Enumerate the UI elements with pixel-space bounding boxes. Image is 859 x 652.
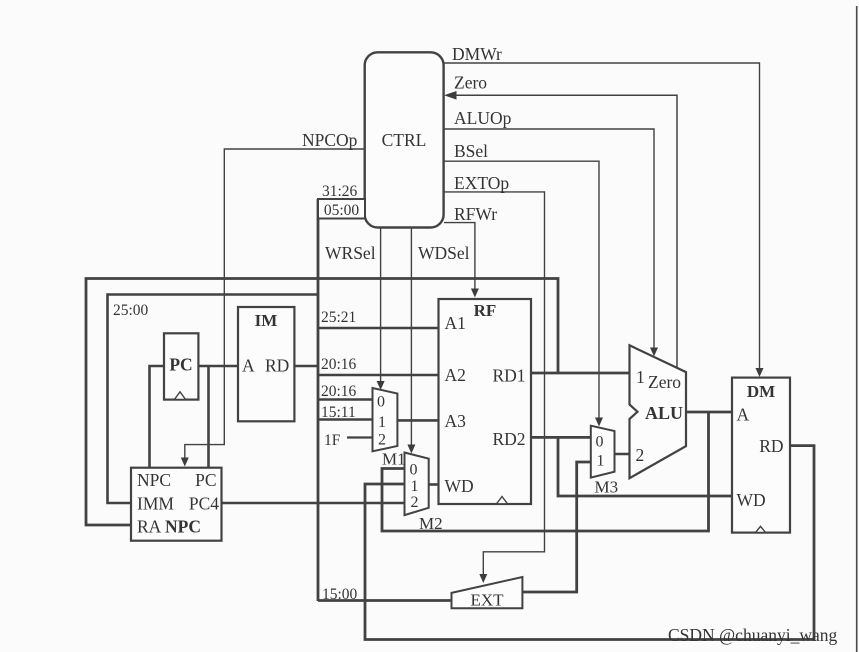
svg-text:Zero: Zero	[454, 73, 487, 93]
svg-text:M3: M3	[595, 478, 619, 497]
svg-text:15:11: 15:11	[321, 404, 356, 421]
svg-text:0: 0	[377, 394, 385, 411]
wire WDSel signal	[410, 228, 412, 447]
svg-text:RD: RD	[265, 356, 289, 376]
svg-text:DMWr: DMWr	[452, 44, 502, 64]
svg-text:RFWr: RFWr	[454, 204, 497, 224]
wire 15:11 tap to M1 input 1	[318, 418, 373, 421]
svg-text:A3: A3	[445, 411, 467, 431]
wire 15:00 tap to EXT input	[318, 599, 452, 602]
wire DMWr signal	[444, 63, 760, 370]
wire NPC output to PC input	[150, 366, 165, 468]
svg-text:A: A	[242, 356, 255, 376]
block IM	[238, 307, 294, 421]
svg-text:Zero: Zero	[648, 372, 681, 392]
svg-text:WDSel: WDSel	[418, 243, 470, 263]
wire 20:16 tap to M1 input 0	[318, 398, 373, 401]
wire WRSel signal	[380, 228, 382, 384]
extender EXT	[452, 577, 523, 610]
wire ALU output to DM A	[686, 411, 732, 414]
svg-text:A1: A1	[445, 313, 466, 333]
svg-text:BSel: BSel	[454, 141, 488, 161]
svg-text:WD: WD	[445, 476, 474, 496]
arrowhead Zero into CTRL	[444, 91, 457, 100]
svg-text:PC: PC	[195, 470, 216, 490]
wire EXTOp signal	[444, 192, 545, 575]
svg-text:RD2: RD2	[492, 429, 525, 449]
arrowhead WRSel into M1	[377, 381, 385, 390]
svg-text:CTRL: CTRL	[382, 130, 427, 150]
wire IM RD to instruction bus	[294, 365, 318, 368]
block PC	[164, 333, 198, 399]
svg-text:EXT: EXT	[470, 591, 504, 610]
svg-text:IM: IM	[255, 311, 278, 330]
wire M1 output to RF A3	[397, 419, 439, 422]
svg-text:ALU: ALU	[645, 403, 683, 423]
svg-text:2: 2	[378, 432, 386, 449]
arrowhead WDSel into M2	[407, 445, 415, 454]
wire RD2 branch to DM WD	[558, 437, 732, 496]
wire NPCOp signal	[185, 149, 365, 459]
wire RFWr signal	[444, 223, 475, 290]
arrowhead ALUOp into ALU	[650, 348, 658, 357]
wire RD1 feedback loop to NPC RA	[86, 279, 558, 526]
wire instruction 25:00 to NPC IMM	[108, 295, 319, 504]
wire RF RD1 to ALU input 1	[531, 372, 630, 375]
svg-text:2: 2	[636, 445, 645, 465]
mux M1	[373, 388, 398, 451]
svg-text:A: A	[737, 405, 750, 425]
wire EXT output to M3 input 1	[522, 462, 591, 592]
block NPC	[131, 468, 222, 541]
arrowhead DMWr into DM	[756, 368, 764, 377]
block DM	[732, 378, 790, 533]
svg-text:CSDN @chuanyi_wang: CSDN @chuanyi_wang	[668, 625, 837, 645]
arrowhead EXTOp into EXT	[479, 574, 487, 583]
alu U1	[630, 345, 687, 478]
svg-text:PC4: PC4	[189, 494, 219, 514]
wire M2 output to RF WD	[429, 483, 439, 486]
svg-text:M2: M2	[419, 514, 443, 533]
arrowhead NPCOp into NPC	[181, 458, 189, 467]
svg-text:M1: M1	[382, 450, 406, 469]
block CTRL	[365, 52, 444, 227]
svg-text:1: 1	[636, 367, 645, 387]
wire instruction bus vertical	[317, 199, 320, 601]
svg-text:1: 1	[411, 478, 419, 495]
svg-text:25:00: 25:00	[113, 302, 149, 319]
wire 25:21 tap to RF A1	[318, 327, 439, 330]
clock input PC	[175, 392, 186, 400]
svg-text:WD: WD	[737, 490, 766, 510]
svg-text:IMM: IMM	[137, 494, 174, 514]
svg-text:ALUOp: ALUOp	[454, 108, 512, 128]
wire ALUOp signal	[444, 129, 654, 349]
scan edge artifact right	[856, 6, 858, 652]
wire BSel signal	[444, 161, 599, 419]
svg-text:A2: A2	[445, 365, 466, 385]
clock input DM	[756, 526, 766, 532]
svg-text:1: 1	[378, 414, 386, 431]
svg-text:20:16: 20:16	[321, 383, 357, 400]
svg-text:DM: DM	[747, 382, 775, 401]
svg-text:20:16: 20:16	[321, 356, 357, 373]
wire RF RD2 to M3 input 0	[531, 436, 591, 439]
svg-text:RD: RD	[759, 436, 783, 456]
svg-text:25:21: 25:21	[321, 309, 356, 326]
svg-text:RA: RA	[137, 517, 162, 537]
svg-text:1: 1	[597, 453, 605, 470]
svg-text:NPC: NPC	[137, 470, 171, 490]
svg-text:1F: 1F	[324, 432, 341, 449]
block RF	[439, 299, 532, 504]
mux M3	[591, 426, 615, 478]
svg-text:WRSel: WRSel	[325, 243, 376, 263]
svg-text:RD1: RD1	[492, 366, 525, 386]
svg-text:2: 2	[411, 494, 419, 511]
svg-text:15:00: 15:00	[322, 586, 358, 603]
mux M2	[405, 453, 429, 516]
svg-text:0: 0	[596, 434, 604, 451]
wire M3 output to ALU input 2	[614, 453, 631, 456]
wire 1F constant to M1 input 2	[347, 436, 373, 438]
svg-text:EXTOp: EXTOp	[454, 173, 509, 193]
svg-text:0: 0	[410, 462, 418, 479]
svg-text:NPCOp: NPCOp	[302, 130, 358, 150]
svg-text:RF: RF	[474, 301, 497, 320]
svg-text:NPC: NPC	[165, 517, 201, 537]
node 05:00 field box	[318, 199, 365, 219]
svg-text:31:26: 31:26	[322, 183, 358, 200]
svg-text:05:00: 05:00	[324, 202, 360, 219]
clock input RF	[497, 497, 508, 504]
arrowhead RFWr into RF	[471, 289, 479, 298]
wire DM RD feedback to M2 input 1	[365, 446, 814, 640]
wire 20:16 tap to RF A2	[318, 374, 439, 377]
wire PC output to IM address	[198, 365, 239, 368]
wire ALU result to M2 input 0	[382, 412, 709, 531]
arrowhead BSel into M3	[595, 418, 603, 427]
wire 31:26 field to CTRL	[317, 199, 365, 202]
wire Zero signal into CTRL	[455, 95, 677, 367]
wire PC4 to M2 input 2	[221, 502, 405, 505]
wire PC value down to NPC PC input	[207, 366, 210, 468]
svg-text:PC: PC	[169, 355, 192, 375]
